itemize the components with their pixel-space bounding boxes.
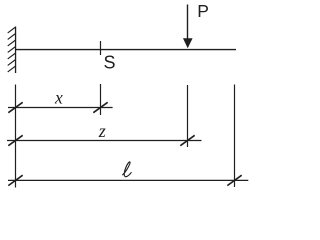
svg-text:x: x: [54, 88, 63, 108]
svg-text:S: S: [104, 53, 116, 73]
svg-text:z: z: [98, 121, 106, 141]
svg-text:P: P: [197, 1, 209, 21]
